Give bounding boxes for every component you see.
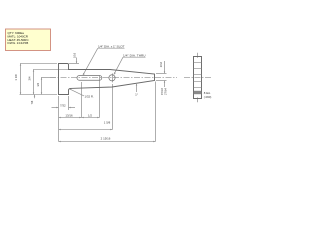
- svg-text:1/16: 1/16: [73, 52, 77, 58]
- svg-text:1 1/8: 1 1/8: [14, 74, 18, 81]
- svg-text:(.090): (.090): [204, 95, 212, 99]
- svg-text:3/16: 3/16: [159, 61, 163, 67]
- svg-text:3/4: 3/4: [28, 76, 32, 80]
- svg-text:DWG 10425B: DWG 10425B: [8, 41, 29, 45]
- svg-text:1/4" DIA. THRU: 1/4" DIA. THRU: [123, 53, 146, 57]
- svg-text:1/4" DIA. x 1" SLOT: 1/4" DIA. x 1" SLOT: [98, 44, 125, 48]
- svg-text:7/32: 7/32: [60, 103, 66, 107]
- svg-text:1 5/8: 1 5/8: [104, 120, 111, 124]
- svg-text:27/64: 27/64: [163, 88, 167, 95]
- svg-text:1/2: 1/2: [36, 82, 40, 86]
- svg-text:1/2: 1/2: [88, 113, 92, 117]
- svg-text:13/16: 13/16: [65, 113, 73, 117]
- svg-text:1/32 R.: 1/32 R.: [85, 95, 95, 99]
- svg-text:2 15/16: 2 15/16: [101, 137, 111, 141]
- svg-text:7/8: 7/8: [30, 100, 34, 104]
